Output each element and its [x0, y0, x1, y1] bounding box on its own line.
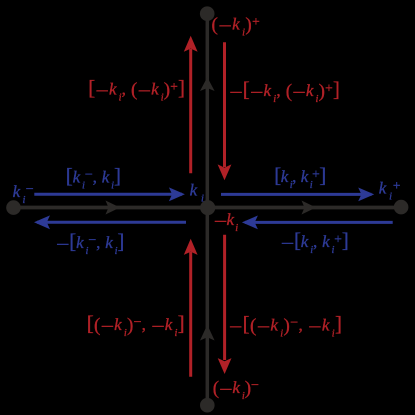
node bottom: [200, 398, 215, 413]
blue arrow right (left-top): [34, 187, 185, 201]
red arrow down (upper-right): [218, 42, 232, 180]
blue arrow left (right-bottom): [242, 216, 393, 230]
node right: [394, 200, 409, 215]
wire: horizontal gray line: [14, 206, 402, 210]
gray direction arrowhead left segment (points right): [106, 201, 121, 215]
red arrow down (lower-right): [218, 235, 232, 374]
node center: [200, 200, 215, 215]
wire: vertical gray line: [206, 14, 210, 405]
node left: [6, 200, 21, 215]
node top: [200, 6, 215, 21]
gray direction arrowhead bottom segment (points up): [200, 325, 215, 341]
blue arrow left (left-bottom): [34, 215, 186, 229]
red arrow up (lower-left): [184, 239, 198, 377]
red arrow up (upper-left): [184, 36, 198, 174]
gray direction arrowhead top segment (points up): [200, 77, 215, 91]
blue arrow right (right-top): [221, 188, 374, 202]
gray direction arrowhead right segment (points right): [302, 201, 317, 215]
